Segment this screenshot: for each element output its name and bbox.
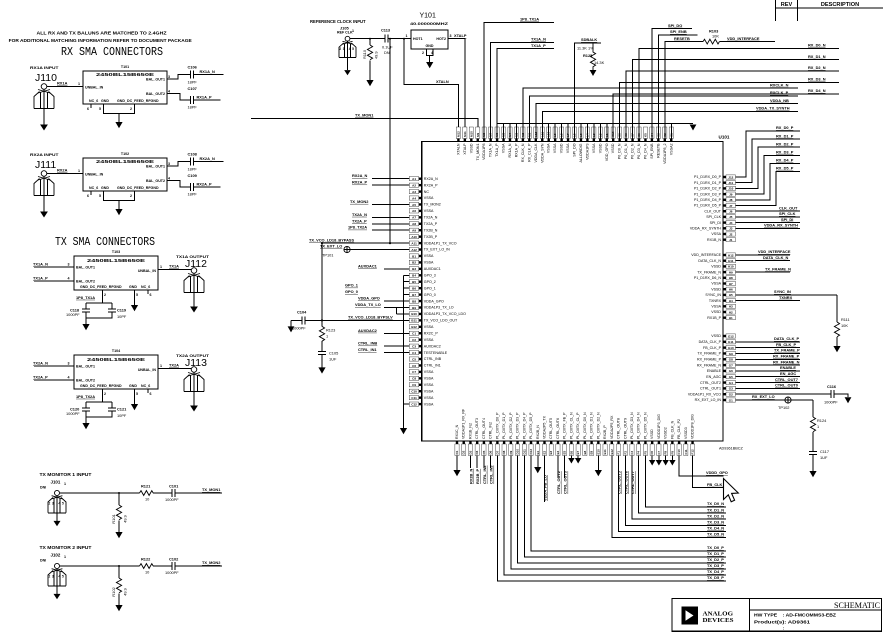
svg-text:B4: B4 (412, 274, 416, 278)
svg-text:REV: REV (781, 2, 793, 8)
svg-text:REFERENCE CLOCK INPUT: REFERENCE CLOCK INPUT (310, 19, 366, 24)
svg-text:SPI_ENB: SPI_ENB (650, 143, 654, 159)
svg-text:R102: R102 (111, 586, 116, 596)
wire net VDD_INTERFACE U101 H12 (736, 254, 791, 256)
svg-text:RX2A_P: RX2A_P (197, 182, 213, 187)
wire XTALP from Y101 pin3 to U101 (448, 39, 465, 142)
wire net DATA_CLK_N U101 H11 (736, 260, 791, 262)
wire net RX2A_N to U101 A1 (372, 178, 409, 180)
wire net TX_D1_N (639, 456, 726, 514)
svg-text:J10: J10 (728, 187, 733, 191)
svg-text:DEVICES: DEVICES (703, 618, 735, 624)
svg-text:Product(s): AD9361: Product(s): AD9361 (754, 620, 811, 625)
svg-text:XTALN: XTALN (436, 79, 449, 84)
svg-text:RX_D1_N: RX_D1_N (808, 54, 826, 59)
wire VDDA_TX_LO stub B9 (384, 307, 409, 309)
wire net SPI_CLK U101 J5 (736, 216, 801, 218)
wire net TX_D4_P (504, 456, 726, 576)
svg-text:TX_D0_P: TX_D0_P (707, 545, 724, 550)
svg-text:3: 3 (52, 575, 54, 579)
svg-text:PL_D0TX_D5_N: PL_D0TX_D5_N (643, 412, 647, 439)
U101 top pins M/L/K rows (456, 127, 460, 139)
svg-text:A8: A8 (412, 222, 416, 226)
wire net RX_D5_P (736, 172, 801, 206)
svg-text:TX_D1_N: TX_D1_N (707, 507, 724, 512)
transformer/balun T101 (83, 71, 167, 104)
svg-text:P1_D1RX_D2_P: P1_D1RX_D2_P (694, 187, 722, 191)
svg-text:VDDD1P3_DIG: VDDD1P3_DIG (657, 414, 661, 439)
svg-text:CTRL_IN3: CTRL_IN3 (489, 465, 494, 484)
svg-text:VSSA: VSSA (424, 254, 434, 258)
svg-text:TX2B_N: TX2B_N (424, 228, 438, 232)
svg-text:14.3K: 14.3K (594, 60, 605, 65)
wire AUXDAC1 stub B3 (384, 268, 409, 270)
svg-text:PL_D0TX_CL_P: PL_D0TX_CL_P (576, 412, 580, 439)
wire net CTRL_OUT0 U101 G3 (736, 387, 801, 389)
svg-text::: : (783, 626, 784, 631)
svg-text:VSSA: VSSA (566, 143, 570, 153)
svg-text:C101: C101 (169, 484, 179, 489)
svg-text:SCHEMATIC: SCHEMATIC (834, 600, 880, 610)
wire CTRL_IN1 stub C4 (384, 352, 409, 354)
svg-text:TX_MON1: TX_MON1 (355, 113, 374, 118)
svg-text:J102: J102 (51, 553, 61, 558)
svg-text:6: 6 (87, 107, 89, 111)
svg-text:ALLOWDIG: ALLOWDIG (579, 143, 583, 162)
wire net RX_D1_N (633, 60, 839, 139)
svg-text:TESTENABLE: TESTENABLE (424, 351, 448, 355)
svg-text:H4: H4 (729, 299, 733, 303)
svg-text:2: 2 (104, 293, 106, 297)
svg-text:SPI_DO: SPI_DO (668, 23, 682, 28)
svg-text:PL_D0TX_D0_P: PL_D0TX_D0_P (495, 412, 499, 439)
wire net TX_D5_N (612, 456, 726, 538)
svg-text:5: 5 (352, 47, 354, 51)
svg-text:E7: E7 (576, 450, 580, 454)
wire net TX_VCO_LD18_BYPASS to U101 A11 (322, 242, 409, 244)
svg-text:C107: C107 (188, 86, 197, 91)
svg-text:XTALN: XTALN (456, 143, 460, 155)
svg-text:T104: T104 (112, 349, 120, 353)
svg-text:4: 4 (349, 47, 351, 51)
svg-text:TX2A_N: TX2A_N (352, 212, 367, 217)
revision table REV / DESCRIPTION (776, 0, 883, 21)
svg-text:2: 2 (130, 107, 132, 111)
svg-text:TX1A_P: TX1A_P (495, 143, 499, 157)
svg-text:SPI_DO: SPI_DO (573, 143, 577, 156)
svg-text:P1_D1RX_D1_P: P1_D1RX_D1_P (694, 181, 722, 185)
svg-text:B8: B8 (412, 299, 416, 303)
svg-text:PL_D0TX_D1_N: PL_D0TX_D1_N (590, 412, 594, 439)
svg-text:A10: A10 (411, 235, 417, 239)
wire net RX1A_P (194, 99, 221, 101)
svg-text:TX SMA CONNECTORS: TX SMA CONNECTORS (55, 235, 155, 249)
svg-text:R123: R123 (326, 327, 335, 332)
svg-text:PL_D0TX_D2_N: PL_D0TX_D2_N (596, 412, 600, 439)
wire net RX_D4_P (736, 163, 801, 199)
svg-text:1: 1 (326, 333, 328, 338)
svg-text:G12: G12 (728, 334, 734, 338)
svg-text:CTRL_OUT9: CTRL_OUT9 (623, 418, 627, 439)
svg-text:VSSA: VSSA (424, 338, 434, 342)
svg-text:RX2A: RX2A (57, 168, 68, 173)
svg-text:J11: J11 (728, 181, 733, 185)
svg-text:F3: F3 (630, 451, 634, 455)
svg-text:R121: R121 (141, 484, 151, 489)
svg-text:TX MONITOR 1 INPUT: TX MONITOR 1 INPUT (40, 472, 93, 477)
svg-text:VSSD: VSSD (711, 334, 721, 338)
svg-text:TX_FRAME_N: TX_FRAME_N (765, 266, 791, 271)
svg-text:CTRL_OUT8: CTRL_OUT8 (617, 418, 621, 439)
capacitor C108 18PF (191, 158, 194, 166)
svg-text:A6: A6 (412, 209, 416, 213)
svg-text:TX_D2_P: TX_D2_P (707, 557, 724, 562)
wire net RX_D2_N (626, 71, 839, 139)
svg-text:GPO_2: GPO_2 (424, 280, 436, 284)
svg-text:RX2B_N: RX2B_N (536, 425, 540, 439)
svg-text:C108: C108 (188, 152, 198, 157)
svg-text:D7: D7 (495, 450, 499, 454)
svg-text:P1_D1RX_D4_P: P1_D1RX_D4_P (694, 198, 722, 202)
svg-text:VSSA: VSSA (502, 143, 506, 153)
svg-text:RXCLK_N: RXCLK_N (770, 82, 789, 87)
svg-text:RXCLK_P: RXCLK_P (770, 90, 789, 95)
wire net SPI_DI U101 J4 (736, 222, 801, 224)
svg-text:10K: 10K (712, 34, 719, 39)
svg-text:D2: D2 (462, 450, 466, 454)
svg-text:VDDA_FB_LO: VDDA_FB_LO (542, 475, 547, 501)
capacitor C109 18PF (191, 183, 194, 191)
wire net SPI_ENB (658, 35, 697, 139)
svg-text:RX_EXT_LO_IN: RX_EXT_LO_IN (695, 398, 722, 402)
svg-text:2450BL15B650E: 2450BL15B650E (96, 72, 154, 77)
svg-text:J2: J2 (729, 232, 733, 236)
svg-text:D9: D9 (509, 450, 513, 454)
svg-text:DNI: DNI (40, 486, 46, 490)
svg-text:RESETB: RESETB (656, 143, 660, 158)
svg-text:VSSA: VSSA (424, 377, 434, 381)
rail drop wires to top pins (504, 124, 672, 139)
svg-text:49.9: 49.9 (123, 587, 128, 596)
svg-text:G1: G1 (729, 398, 733, 402)
svg-text:H5: H5 (729, 293, 733, 297)
svg-text:J110: J110 (35, 72, 57, 84)
svg-text:D5: D5 (482, 450, 486, 454)
svg-text:C116: C116 (827, 384, 837, 389)
svg-text:1P8_TX1A: 1P8_TX1A (76, 295, 95, 300)
svg-text:E10: E10 (596, 449, 600, 455)
svg-text:TX_D3_N: TX_D3_N (707, 520, 724, 525)
wire net TX1A_P (497, 49, 554, 139)
svg-text:C9: C9 (412, 383, 416, 387)
svg-text:2: 2 (422, 51, 424, 55)
wire net TX2A_P to U101 A8 (372, 223, 409, 225)
svg-text:D4: D4 (475, 450, 479, 454)
wire net RX1A_N (194, 74, 224, 76)
svg-text:C5: C5 (412, 357, 416, 361)
svg-text:H11: H11 (728, 259, 734, 263)
svg-text:TX_FRAME_P: TX_FRAME_P (774, 348, 800, 353)
wire net 1P8_TX2A to U101 A9 (372, 229, 409, 231)
wire net VDDA_NB (536, 104, 798, 139)
svg-text:J3: J3 (729, 227, 733, 231)
svg-text:RX_CLK_N: RX_CLK_N (521, 143, 525, 162)
svg-text:3: 3 (168, 75, 170, 79)
svg-text:VSSA: VSSA (711, 305, 721, 309)
svg-text:SPI_DI: SPI_DI (781, 217, 793, 222)
svg-text:RX_D4_P: RX_D4_P (776, 158, 794, 163)
svg-text:RX_FRAME_P: RX_FRAME_P (697, 357, 722, 361)
svg-text:5: 5 (99, 107, 101, 111)
svg-text:RESETB: RESETB (674, 36, 690, 41)
wire stubs D3-D6 with rotated net labels (469, 456, 471, 469)
svg-text:B9: B9 (412, 306, 416, 310)
svg-text:1000PF: 1000PF (66, 411, 80, 416)
svg-text:RX_D5_P: RX_D5_P (776, 166, 794, 171)
svg-text:C102: C102 (169, 557, 179, 562)
svg-text:1000PF: 1000PF (824, 400, 838, 405)
svg-text:1: 1 (160, 265, 162, 269)
svg-text:RX_D3_N: RX_D3_N (808, 77, 826, 82)
wire net TX_D0_P (531, 456, 726, 552)
svg-text:CTRL_IN2: CTRL_IN2 (482, 465, 487, 484)
wire net TXNRX U101 H4 (736, 300, 801, 302)
svg-text:VSSA: VSSA (424, 389, 434, 393)
svg-text:RX1C_N: RX1C_N (455, 424, 459, 439)
svg-text:E2: E2 (542, 450, 546, 454)
wire net TX1A_N (491, 42, 554, 138)
svg-text:G10: G10 (728, 346, 734, 350)
svg-text:P1_D1RX_D0_P: P1_D1RX_D0_P (694, 175, 722, 179)
op-amp/IC U101 AD9361BBCZ body (422, 142, 723, 442)
svg-text:C4: C4 (412, 351, 416, 355)
svg-text:RX1A: RX1A (57, 81, 68, 86)
svg-text:AD9361BBCZ: AD9361BBCZ (719, 447, 744, 451)
svg-text:3: 3 (450, 34, 452, 38)
svg-text:P0_D3_N: P0_D3_N (637, 143, 641, 159)
svg-text:TX1A_P: TX1A_P (33, 276, 48, 281)
capacitor C121 10PF (111, 402, 113, 408)
wire VDDA_GPO stub B8 (384, 300, 409, 302)
svg-text:NC_6: NC_6 (141, 285, 150, 289)
svg-text:TX_VCO_LD18_BYPASS: TX_VCO_LD18_BYPASS (309, 237, 355, 242)
svg-text:UNBAL_IN: UNBAL_IN (85, 86, 104, 90)
svg-text:VDDA_RX_SYNTH: VDDA_RX_SYNTH (690, 227, 722, 231)
mouse cursor (724, 479, 739, 502)
svg-text:UNBAL_IN: UNBAL_IN (138, 368, 157, 372)
svg-text:E5: E5 (563, 450, 567, 454)
svg-text:CTRL_INB: CTRL_INB (358, 341, 377, 346)
svg-text:10PF: 10PF (117, 314, 127, 319)
svg-text:2: 2 (130, 194, 132, 198)
wire net ENABLE U101 G6 (736, 370, 801, 372)
svg-text:C109: C109 (188, 173, 198, 178)
svg-text:SYNC_IN: SYNC_IN (774, 289, 791, 294)
test point TP101 on net TX_EXT_LO at U101 A12 (350, 249, 409, 251)
svg-text:F12: F12 (691, 449, 695, 455)
wire XTALN branch (403, 38, 405, 40)
svg-text:D8: D8 (502, 450, 506, 454)
svg-text:VSSA: VSSA (711, 232, 721, 236)
svg-text:VSSD: VSSD (469, 143, 473, 153)
title block frame (672, 599, 882, 632)
svg-text:B1: B1 (412, 254, 416, 258)
wire J111 to T102 pin 1 (47, 173, 83, 175)
wire net FB_CLK_P U101 G10 (736, 347, 801, 349)
svg-text:B12: B12 (411, 325, 417, 329)
svg-text:TX2A_N: TX2A_N (424, 216, 438, 220)
svg-text:A7: A7 (412, 216, 416, 220)
svg-text:DATA_CLK_N: DATA_CLK_N (763, 255, 789, 260)
svg-text:F7: F7 (657, 451, 661, 455)
svg-text:TX_D5_N: TX_D5_N (707, 532, 724, 537)
svg-text:2: 2 (48, 502, 50, 506)
svg-text:ENABLE: ENABLE (707, 369, 722, 373)
svg-text:M9: M9 (476, 133, 480, 137)
svg-text:VSSD: VSSD (560, 143, 564, 153)
svg-text:VDD_INTERFACE: VDD_INTERFACE (691, 253, 721, 257)
svg-text:RX2A_P: RX2A_P (424, 183, 438, 187)
U101 right pins J/H/G rows (726, 175, 736, 179)
svg-text:F11: F11 (684, 449, 688, 454)
svg-text:VDDA_NB: VDDA_NB (770, 98, 789, 103)
capacitor C120 1000PF (85, 402, 87, 408)
svg-text:3: 3 (68, 263, 70, 267)
svg-text:HW TYPE : AD-FMCOMMS3-EBZ: HW TYPE : AD-FMCOMMS3-EBZ (754, 613, 837, 618)
wire long vertical from C113 node down left side (389, 38, 391, 40)
capacitor C106 18PF (191, 71, 194, 79)
svg-text:BAL_OUT1: BAL_OUT1 (146, 165, 165, 169)
svg-text:J8: J8 (729, 198, 733, 202)
svg-text:CLK_OUT: CLK_OUT (704, 209, 721, 213)
svg-text:E9: E9 (590, 450, 594, 454)
wire net RX_D0_N (639, 48, 839, 138)
svg-text:F10: F10 (677, 449, 681, 455)
svg-text:TX_MON1: TX_MON1 (476, 144, 480, 161)
svg-text:1: 1 (78, 82, 80, 86)
svg-text:J5: J5 (729, 215, 733, 219)
svg-text:CTRL_OUT0: CTRL_OUT0 (775, 383, 798, 388)
svg-text:PL_D0TX_D1_P: PL_D0TX_D1_P (502, 412, 506, 439)
svg-text:2: 2 (339, 47, 341, 51)
svg-text:P0_D2_N: P0_D2_N (631, 143, 635, 159)
ground at T103 pin 5 (134, 290, 136, 305)
svg-text:C121: C121 (117, 407, 127, 412)
svg-text:1000PF: 1000PF (165, 570, 179, 575)
resistor R111 10K to ground (836, 295, 838, 322)
svg-text:E11: E11 (603, 449, 607, 455)
svg-text:U101: U101 (719, 135, 730, 140)
svg-text:49.9: 49.9 (374, 51, 379, 59)
wire net CTRL_OUT7 U101 G4 (736, 382, 801, 384)
svg-text:B11: B11 (411, 319, 417, 323)
svg-text:GPO_0: GPO_0 (424, 293, 436, 297)
svg-text:VDDA_GPO: VDDA_GPO (358, 296, 380, 301)
ground Y101 pins 2,4 (427, 49, 434, 62)
svg-text:R101: R101 (111, 513, 116, 523)
ground rail left of U101 for B4-B7 GND pins (404, 275, 410, 404)
svg-text:R122: R122 (141, 557, 151, 562)
svg-text:1000PF: 1000PF (292, 325, 306, 330)
svg-text:FB_CLK_P: FB_CLK_P (703, 346, 722, 350)
svg-text:CTRL_OUT5: CTRL_OUT5 (549, 418, 553, 439)
wire net TX_MON1 to U101 top (251, 118, 478, 141)
svg-text:VSSD3: VSSD3 (684, 427, 688, 439)
svg-text:5: 5 (99, 194, 101, 198)
svg-text:0.1UF: 0.1UF (382, 45, 393, 50)
svg-text:TX1A_N: TX1A_N (489, 143, 493, 157)
svg-text:PL_D0TX_D4_P: PL_D0TX_D4_P (522, 412, 526, 439)
svg-text:J111: J111 (35, 159, 56, 171)
svg-text:FOR ADDITIONAL MATCHING INFORM: FOR ADDITIONAL MATCHING INFORMATION REFE… (9, 38, 192, 43)
svg-text:B7: B7 (412, 293, 416, 297)
svg-text:RX1A_P: RX1A_P (197, 95, 213, 100)
svg-text:VSSA: VSSA (424, 370, 434, 374)
svg-text:TX_VCO_LD18_BYPSLV: TX_VCO_LD18_BYPSLV (348, 315, 393, 320)
svg-text:1: 1 (406, 34, 408, 38)
wire net TX_FRAME_P U101 G9 (736, 352, 801, 354)
capacitor C104 1000PF (291, 319, 322, 321)
svg-text:GND_DC_FEED_RFGND: GND_DC_FEED_RFGND (117, 186, 159, 190)
svg-text:GPO_0: GPO_0 (345, 289, 358, 294)
svg-text:F1: F1 (617, 451, 621, 455)
resistor R110 49.9 to ground (369, 38, 371, 40)
svg-text:F5: F5 (643, 451, 647, 455)
svg-text:H12: H12 (728, 253, 734, 257)
svg-text:SDBALK: SDBALK (581, 37, 597, 42)
svg-text:SPI_CLK: SPI_CLK (706, 215, 721, 219)
ground at U101 D1 (456, 456, 458, 471)
svg-text:1: 1 (352, 29, 354, 33)
svg-text:GND_DC_FEED_RFGND: GND_DC_FEED_RFGND (80, 384, 122, 388)
svg-text:RX2A_N: RX2A_N (200, 156, 216, 161)
transformer/balun T102 (83, 158, 167, 191)
svg-text:PL_D0TX_D0_N: PL_D0TX_D0_N (583, 412, 587, 439)
svg-text:M12: M12 (456, 131, 460, 137)
svg-text:GND_DC_FEED_RFGND: GND_DC_FEED_RFGND (80, 285, 122, 289)
svg-text:49.9: 49.9 (123, 514, 128, 523)
svg-text:FB_CLK_P2: FB_CLK_P2 (677, 419, 681, 439)
wire J102 to net TX_MON2 (60, 565, 222, 567)
capacitor C102 1000PF (172, 562, 175, 570)
svg-text:CTRL_OUT3: CTRL_OUT3 (475, 418, 479, 439)
svg-text:PL_D0TX_CL_N: PL_D0TX_CL_N (569, 412, 573, 439)
svg-text:P1_D1RX_D3_P: P1_D1RX_D3_P (694, 192, 722, 196)
svg-text:SPI_ENB: SPI_ENB (670, 29, 687, 34)
svg-text:1UF: 1UF (820, 455, 828, 460)
svg-text:VSSD: VSSD (711, 265, 721, 269)
svg-text:GND: GND (129, 384, 137, 388)
wire J101 to net TX_MON1 (60, 492, 222, 494)
svg-text:C119: C119 (117, 308, 127, 313)
svg-text:RX_D2_N: RX_D2_N (808, 65, 826, 70)
ground at T104 pin 5 (134, 389, 136, 404)
svg-text:CTRL_OUT3: CTRL_OUT3 (563, 470, 568, 494)
svg-text:A4: A4 (412, 196, 416, 200)
svg-text:TX_D1_P: TX_D1_P (707, 551, 724, 556)
wire net RX_FRAME_P U101 G8 (736, 358, 801, 360)
svg-text:P0_D4_N: P0_D4_N (643, 143, 647, 159)
svg-text:4: 4 (68, 277, 70, 281)
svg-text:TX_D4_P: TX_D4_P (707, 569, 724, 574)
svg-text:VDDA1P3_TX_LO: VDDA1P3_TX_LO (424, 306, 454, 310)
svg-text:1: 1 (64, 482, 66, 486)
wire net DATA_CLK_P U101 G11 (736, 341, 801, 343)
wire net TX_D3_N (625, 456, 726, 526)
svg-text:HOT2: HOT2 (436, 37, 446, 41)
svg-text:E4: E4 (556, 450, 560, 454)
svg-text:R111: R111 (841, 317, 850, 322)
